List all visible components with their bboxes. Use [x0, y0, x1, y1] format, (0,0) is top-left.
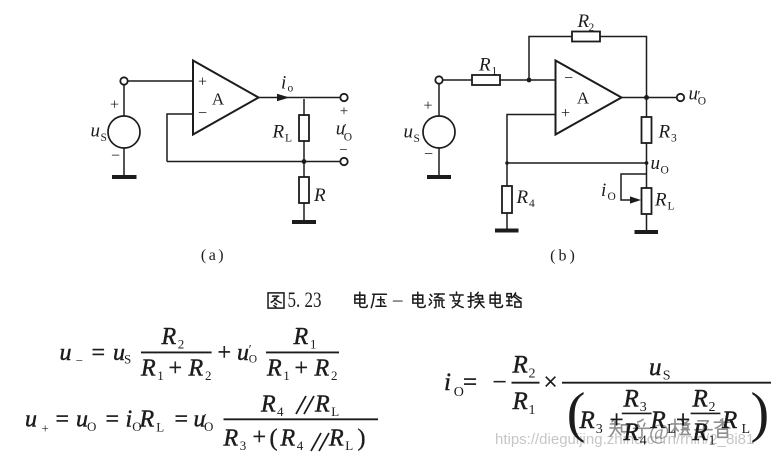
svg-text:R: R [140, 356, 156, 382]
svg-text:R: R [658, 122, 671, 143]
svg-text:5. 23: 5. 23 [288, 287, 322, 312]
svg-text:O: O [204, 419, 213, 434]
svg-text:R: R [272, 122, 285, 143]
svg-text:u: u [649, 354, 662, 381]
svg-text:S: S [124, 352, 131, 367]
svg-text:−: − [424, 146, 433, 163]
svg-text:×: × [544, 369, 558, 396]
svg-text:R: R [260, 392, 276, 418]
svg-text:3: 3 [671, 133, 677, 145]
svg-text:O: O [132, 419, 141, 434]
svg-text:1: 1 [283, 368, 290, 383]
svg-text:o: o [288, 83, 294, 95]
svg-text:L: L [156, 420, 164, 435]
svg-text:1: 1 [310, 337, 317, 352]
svg-text:R: R [293, 324, 309, 350]
svg-text:O: O [249, 354, 257, 366]
svg-text:S: S [663, 369, 671, 384]
svg-text:u: u [237, 340, 249, 366]
svg-text:4: 4 [529, 198, 535, 210]
svg-text:i: i [601, 180, 606, 201]
svg-text:+: + [42, 421, 49, 436]
svg-text:R: R [516, 187, 529, 208]
svg-text:A: A [212, 90, 225, 109]
svg-text:=: = [106, 407, 120, 433]
svg-text:1: 1 [492, 66, 498, 78]
svg-text:L: L [668, 201, 675, 213]
svg-text:+: + [561, 105, 570, 122]
svg-text:i: i [126, 407, 133, 433]
svg-text:R: R [161, 324, 177, 350]
svg-text:L: L [285, 133, 292, 145]
svg-text:R: R [280, 426, 296, 452]
svg-text:R: R [512, 352, 528, 379]
svg-text:R: R [512, 388, 528, 415]
svg-text:(b): (b) [550, 248, 578, 265]
svg-text:−: − [198, 105, 207, 122]
svg-text:S: S [414, 133, 420, 145]
svg-text:R: R [328, 426, 344, 452]
svg-text:−: − [76, 353, 83, 368]
svg-text:S: S [101, 132, 107, 144]
svg-text:2: 2 [178, 337, 185, 352]
svg-text:(a): (a) [201, 247, 226, 264]
svg-text:+: + [423, 98, 432, 115]
svg-text:=: = [92, 340, 106, 366]
svg-text:=: = [56, 407, 70, 433]
svg-text:u: u [91, 121, 101, 142]
svg-text:1: 1 [529, 403, 536, 418]
svg-text:O: O [454, 385, 464, 400]
svg-text:O: O [608, 191, 616, 203]
svg-text:+: + [169, 356, 183, 382]
svg-text:u: u [651, 153, 661, 174]
svg-text:O: O [87, 419, 96, 434]
svg-text:R: R [692, 386, 708, 413]
svg-text:L: L [331, 404, 339, 419]
svg-text:+: + [198, 74, 207, 91]
svg-text:+: + [340, 104, 348, 120]
svg-text:2: 2 [205, 368, 212, 383]
svg-text:L: L [345, 438, 353, 453]
svg-text:2: 2 [331, 368, 338, 383]
svg-text:R: R [314, 392, 330, 418]
svg-text:2: 2 [589, 22, 595, 34]
svg-text:O: O [698, 96, 706, 108]
svg-text:–: – [392, 290, 403, 311]
svg-text:i: i [281, 73, 286, 94]
svg-text:R: R [478, 55, 491, 76]
svg-text:u: u [404, 122, 414, 143]
svg-text:R: R [623, 386, 639, 413]
svg-text:R: R [223, 426, 239, 452]
svg-text:=: = [463, 369, 477, 396]
svg-text:=: = [175, 407, 189, 433]
svg-text:+: + [218, 340, 232, 366]
svg-text:−: − [111, 148, 120, 165]
svg-text:A: A [577, 89, 590, 108]
svg-text:R: R [266, 356, 282, 382]
svg-text:i: i [444, 369, 451, 396]
svg-text:O: O [344, 132, 352, 144]
svg-text:1: 1 [157, 368, 164, 383]
svg-text:+: + [253, 425, 267, 451]
svg-text:−: − [493, 369, 507, 396]
svg-text:R: R [188, 356, 204, 382]
svg-text:3: 3 [240, 438, 247, 453]
svg-text:O: O [661, 165, 669, 177]
svg-text:+: + [110, 97, 119, 114]
svg-text:(: ( [270, 426, 278, 452]
svg-text:R: R [314, 356, 330, 382]
svg-text:htips://dieguijing.zhihu.corn/: htips://dieguijing.zhihu.corn/rnin/2_8i8… [495, 431, 754, 448]
svg-text:−: − [564, 70, 573, 87]
svg-text:+: + [295, 356, 309, 382]
svg-text:@: @ [649, 419, 669, 444]
svg-text:4: 4 [277, 404, 284, 419]
svg-text:R: R [313, 185, 326, 206]
svg-text:−: − [339, 143, 347, 159]
svg-text:u: u [25, 407, 37, 433]
svg-text:2: 2 [529, 367, 536, 382]
svg-text:): ) [358, 426, 366, 452]
svg-text:4: 4 [297, 438, 304, 453]
svg-text:R: R [654, 190, 667, 211]
svg-text:u: u [60, 340, 72, 366]
